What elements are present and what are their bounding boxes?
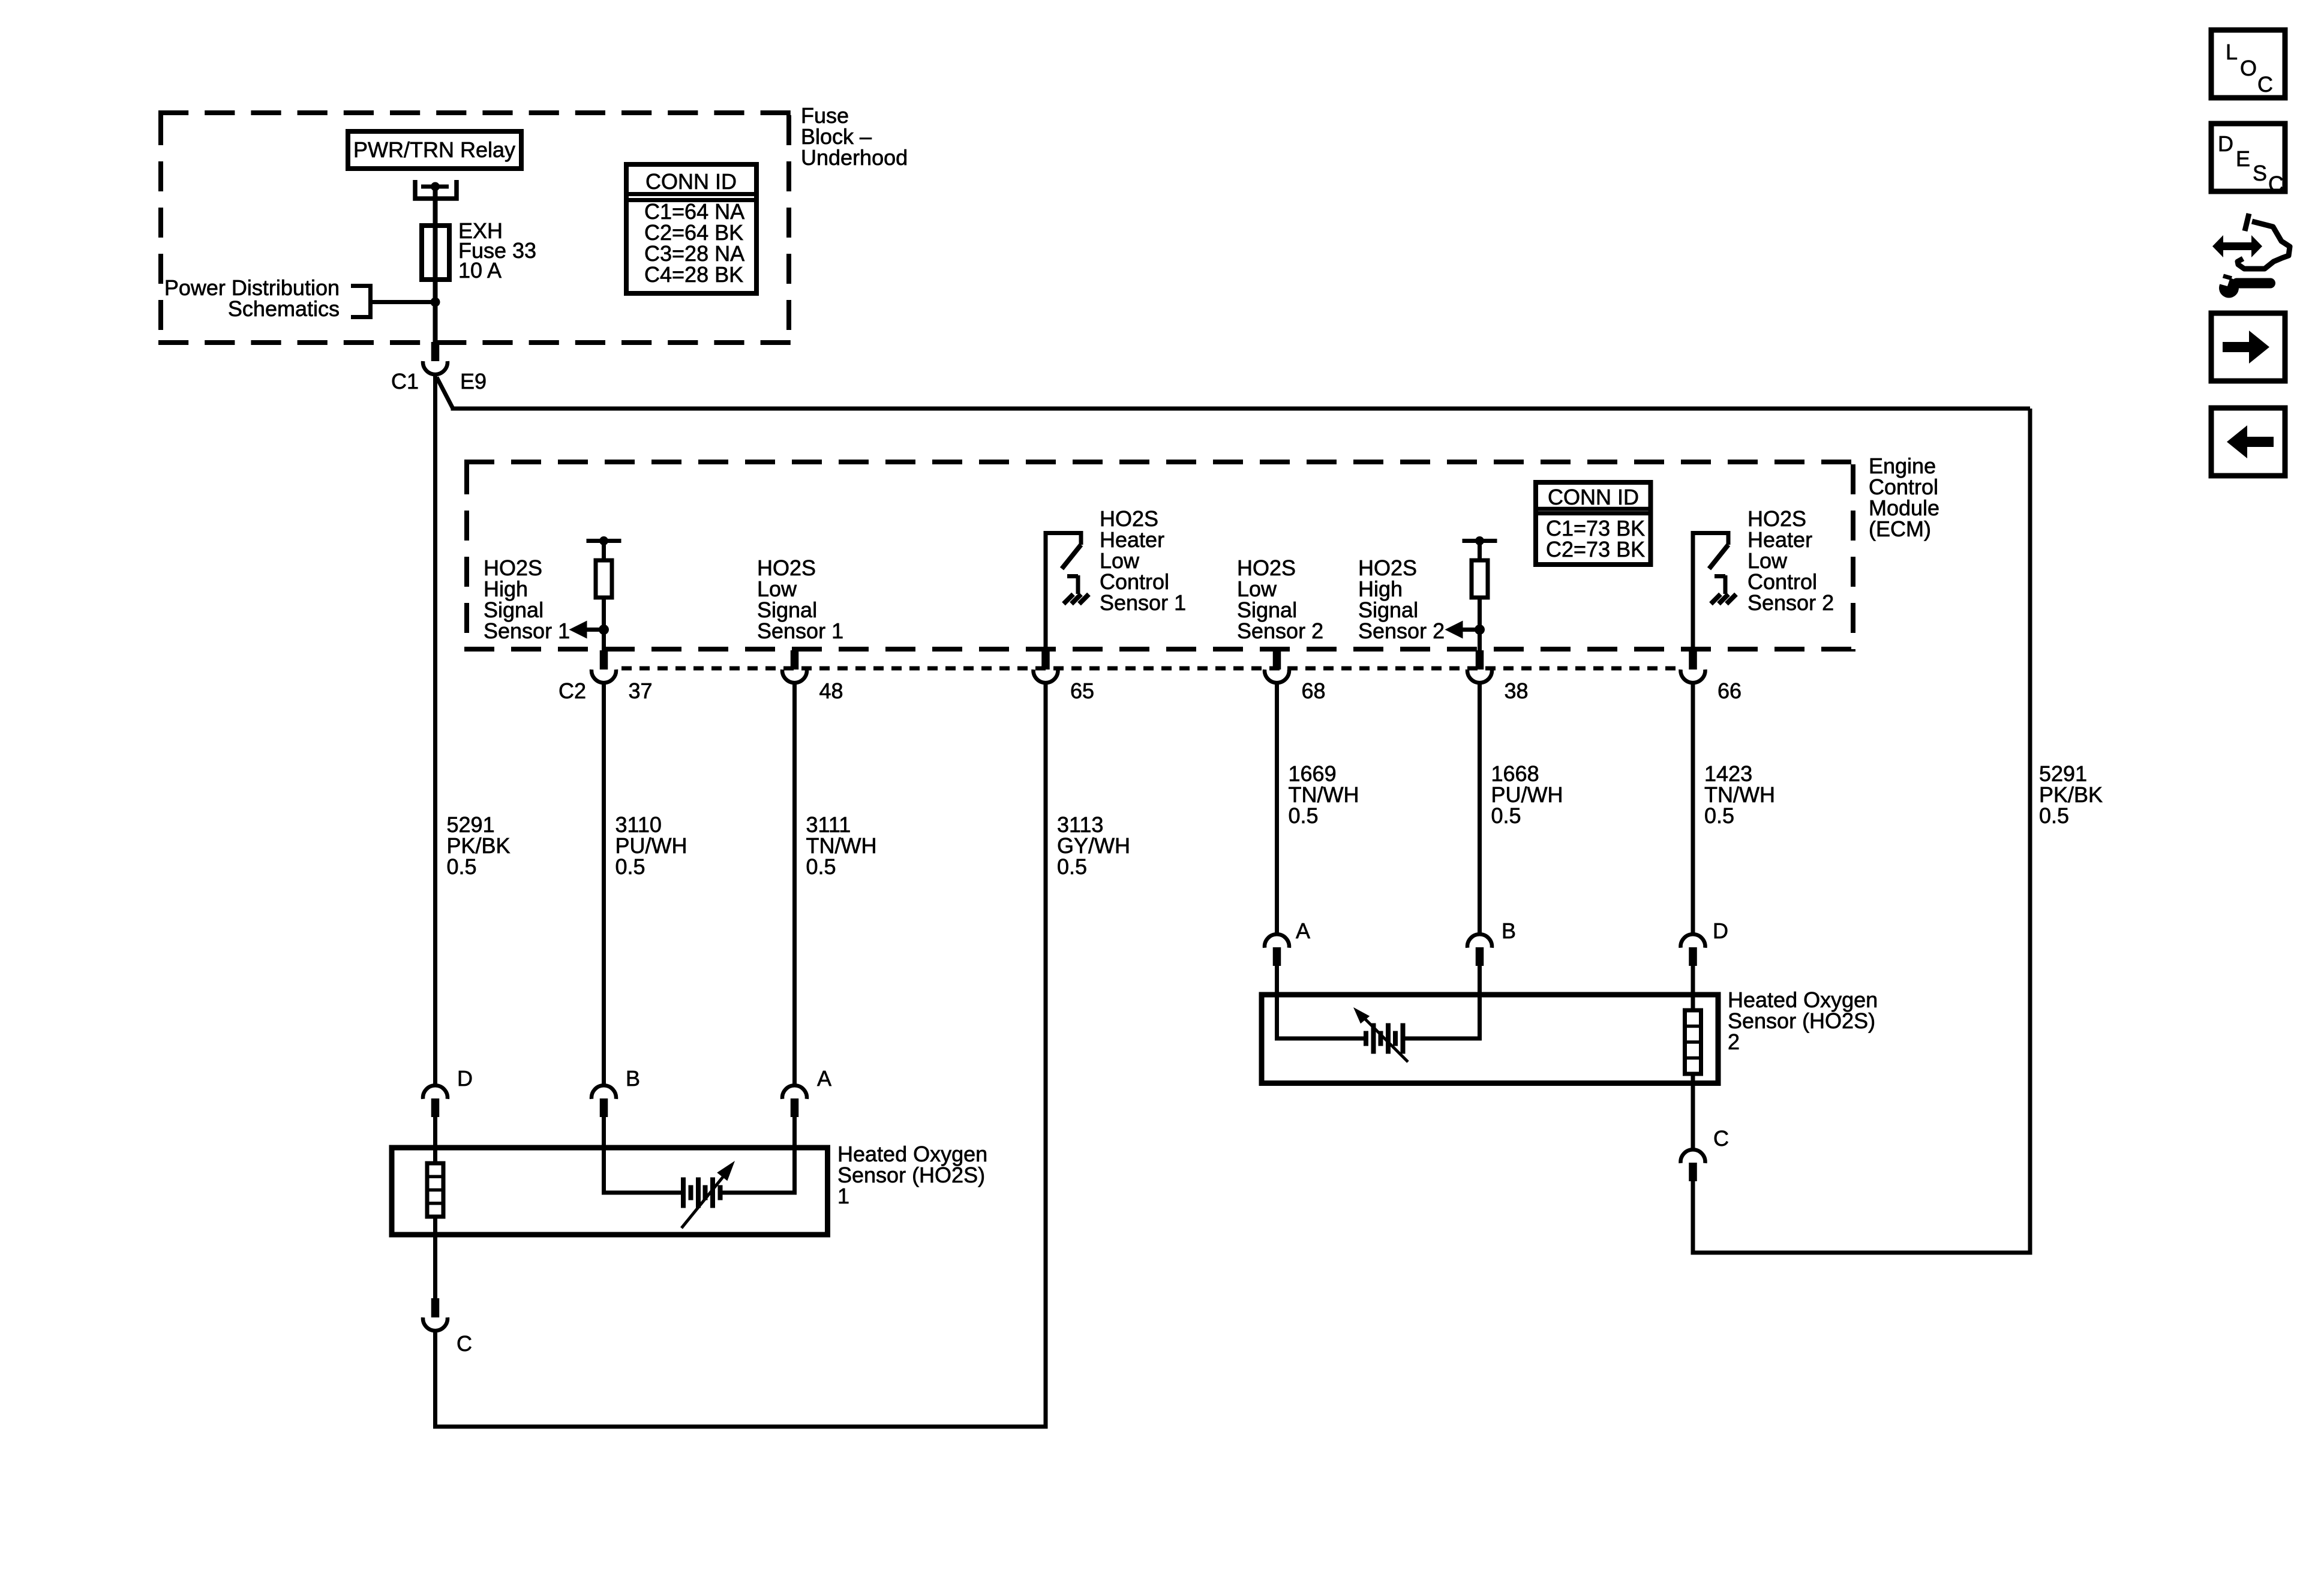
connector C sensor2 bbox=[1681, 1149, 1706, 1181]
wires into sensor2 bbox=[1275, 966, 1279, 1041]
wire 1423 TN/WH pin66 to D bbox=[1691, 683, 1695, 933]
svg-text:C1: C1 bbox=[391, 369, 419, 394]
svg-text:0.5: 0.5 bbox=[1289, 803, 1319, 828]
fuse F33 EXH Fuse 33 10A bbox=[422, 226, 449, 280]
svg-text:10 A: 10 A bbox=[458, 258, 502, 283]
svg-text:C: C bbox=[1713, 1126, 1729, 1151]
svg-text:D: D bbox=[2218, 131, 2233, 156]
resistor internal pin 37 bbox=[569, 536, 621, 652]
pin 37 connector bbox=[591, 650, 616, 683]
svg-text:Sensor 2: Sensor 2 bbox=[1747, 590, 1834, 615]
connector B sensor2 bbox=[1467, 934, 1492, 966]
LOC icon box bbox=[2211, 30, 2285, 196]
svg-text:L: L bbox=[2226, 40, 2238, 64]
wire relay to fuse to C1 bbox=[433, 187, 438, 344]
svg-text:(ECM): (ECM) bbox=[1869, 517, 1931, 541]
heater element sensor1 bbox=[427, 1163, 443, 1217]
svg-text:1: 1 bbox=[837, 1184, 849, 1208]
vehicle wrench icon bbox=[2212, 214, 2290, 298]
svg-text:65: 65 bbox=[1070, 679, 1094, 703]
ECM dashed box bbox=[464, 460, 1855, 464]
svg-text:D: D bbox=[1713, 918, 1728, 943]
svg-text:Schematics: Schematics bbox=[228, 296, 340, 321]
svg-text:B: B bbox=[626, 1066, 640, 1091]
svg-text:Sensor 1: Sensor 1 bbox=[757, 619, 843, 643]
svg-text:Sensor 1: Sensor 1 bbox=[484, 619, 570, 643]
svg-text:C: C bbox=[2268, 172, 2284, 196]
svg-text:Sensor 2: Sensor 2 bbox=[1237, 619, 1323, 643]
resistor internal pin 38 bbox=[1445, 536, 1497, 652]
svg-text:A: A bbox=[817, 1066, 831, 1091]
node junction below fuse bbox=[431, 298, 440, 307]
heater element sensor2 bbox=[1685, 1010, 1701, 1074]
svg-text:O: O bbox=[2240, 56, 2257, 80]
pin 48 connector bbox=[782, 650, 807, 683]
svg-text:S: S bbox=[2253, 161, 2267, 185]
svg-text:PWR/TRN Relay: PWR/TRN Relay bbox=[353, 137, 515, 162]
svg-text:CONN ID: CONN ID bbox=[1548, 485, 1639, 509]
fuse block underhood dashed box bbox=[158, 110, 791, 115]
wire 3111 TN/WH pin48 to A bbox=[792, 683, 797, 1085]
wire 1668 PU/WH pin38 to B bbox=[1478, 683, 1482, 933]
wire E9 diagonal branch bbox=[437, 377, 453, 409]
connector line C2 dotted bbox=[621, 667, 1680, 671]
svg-text:B: B bbox=[1502, 918, 1516, 943]
svg-text:66: 66 bbox=[1718, 679, 1742, 703]
DESC icon box bbox=[2211, 124, 2285, 191]
pin 66 connector bbox=[1681, 650, 1706, 683]
wire bottom left horizontal bbox=[433, 1425, 1048, 1429]
svg-text:37: 37 bbox=[629, 679, 653, 703]
next page arrow icon bbox=[2211, 313, 2285, 381]
power distribution bracket bbox=[351, 286, 371, 317]
heated oxygen sensor 1 box bbox=[392, 1148, 828, 1235]
svg-text:Sensor (HO2S): Sensor (HO2S) bbox=[837, 1163, 985, 1187]
wire 3113 GY/WH pin65 to bottom bbox=[1044, 683, 1048, 1429]
svg-text:C2=73 BK: C2=73 BK bbox=[1546, 537, 1645, 562]
connector D sensor2 bbox=[1681, 934, 1706, 966]
svg-text:E9: E9 bbox=[460, 369, 487, 394]
svg-text:0.5: 0.5 bbox=[615, 854, 645, 879]
connector C1/E9 bbox=[423, 342, 448, 374]
wire 3110 PU/WH pin37 to B bbox=[602, 683, 606, 1085]
relay contact symbol bbox=[415, 180, 457, 199]
connector D sensor1 bbox=[423, 1085, 448, 1117]
svg-text:68: 68 bbox=[1302, 679, 1326, 703]
pin 38 connector bbox=[1467, 650, 1492, 683]
svg-text:0.5: 0.5 bbox=[2039, 803, 2069, 828]
svg-text:Sensor (HO2S): Sensor (HO2S) bbox=[1728, 1008, 1875, 1033]
svg-text:C2: C2 bbox=[559, 679, 586, 703]
connector A sensor1 bbox=[782, 1085, 807, 1117]
svg-text:0.5: 0.5 bbox=[1491, 803, 1521, 828]
svg-text:CONN ID: CONN ID bbox=[645, 169, 737, 194]
svg-text:2: 2 bbox=[1728, 1029, 1740, 1054]
svg-text:D: D bbox=[457, 1066, 473, 1091]
svg-text:E: E bbox=[2236, 146, 2250, 171]
sensing cell sensor2 bbox=[1277, 1037, 1364, 1041]
connector A sensor2 bbox=[1265, 934, 1289, 966]
svg-text:C: C bbox=[2257, 72, 2273, 97]
pin 65 connector bbox=[1034, 650, 1058, 683]
pin 68 connector bbox=[1265, 650, 1289, 683]
svg-text:0.5: 0.5 bbox=[1057, 854, 1087, 879]
wire 1669 TN/WH pin68 to A bbox=[1275, 683, 1279, 933]
svg-text:Underhood: Underhood bbox=[801, 145, 908, 170]
svg-text:0.5: 0.5 bbox=[1704, 803, 1734, 828]
wires into sensor1 bbox=[433, 1117, 437, 1165]
svg-text:48: 48 bbox=[819, 679, 843, 703]
svg-text:Sensor 2: Sensor 2 bbox=[1358, 619, 1445, 643]
wire bottom right horizontal bbox=[1691, 1251, 2032, 1255]
conn id table fuse block bbox=[626, 164, 756, 293]
svg-text:C: C bbox=[457, 1331, 472, 1356]
svg-text:Sensor 1: Sensor 1 bbox=[1100, 590, 1186, 615]
wire left vertical 5291 PK/BK bbox=[433, 374, 437, 1085]
connector B sensor1 bbox=[591, 1085, 616, 1117]
svg-text:38: 38 bbox=[1505, 679, 1529, 703]
prev page arrow icon bbox=[2211, 408, 2285, 476]
relay K PWR/TRN Relay box bbox=[348, 131, 521, 169]
svg-text:A: A bbox=[1296, 918, 1310, 943]
conn id table ECM bbox=[1536, 482, 1651, 565]
switch driver sensor 1 (pin 65) bbox=[1044, 533, 1048, 653]
switch driver sensor 2 (pin 66) bbox=[1691, 533, 1695, 653]
svg-text:0.5: 0.5 bbox=[447, 854, 477, 879]
svg-text:0.5: 0.5 bbox=[806, 854, 836, 879]
wire to power distribution bbox=[371, 300, 436, 304]
wire top horizontal to ECM right bbox=[451, 407, 2031, 411]
wire right vertical 5291 PK/BK bbox=[2028, 409, 2032, 1253]
sensing cell sensor1 bbox=[604, 1191, 681, 1195]
connector C sensor1 bbox=[423, 1298, 448, 1331]
svg-text:C4=28 BK: C4=28 BK bbox=[644, 262, 743, 287]
heated oxygen sensor 2 box bbox=[1262, 995, 1718, 1083]
